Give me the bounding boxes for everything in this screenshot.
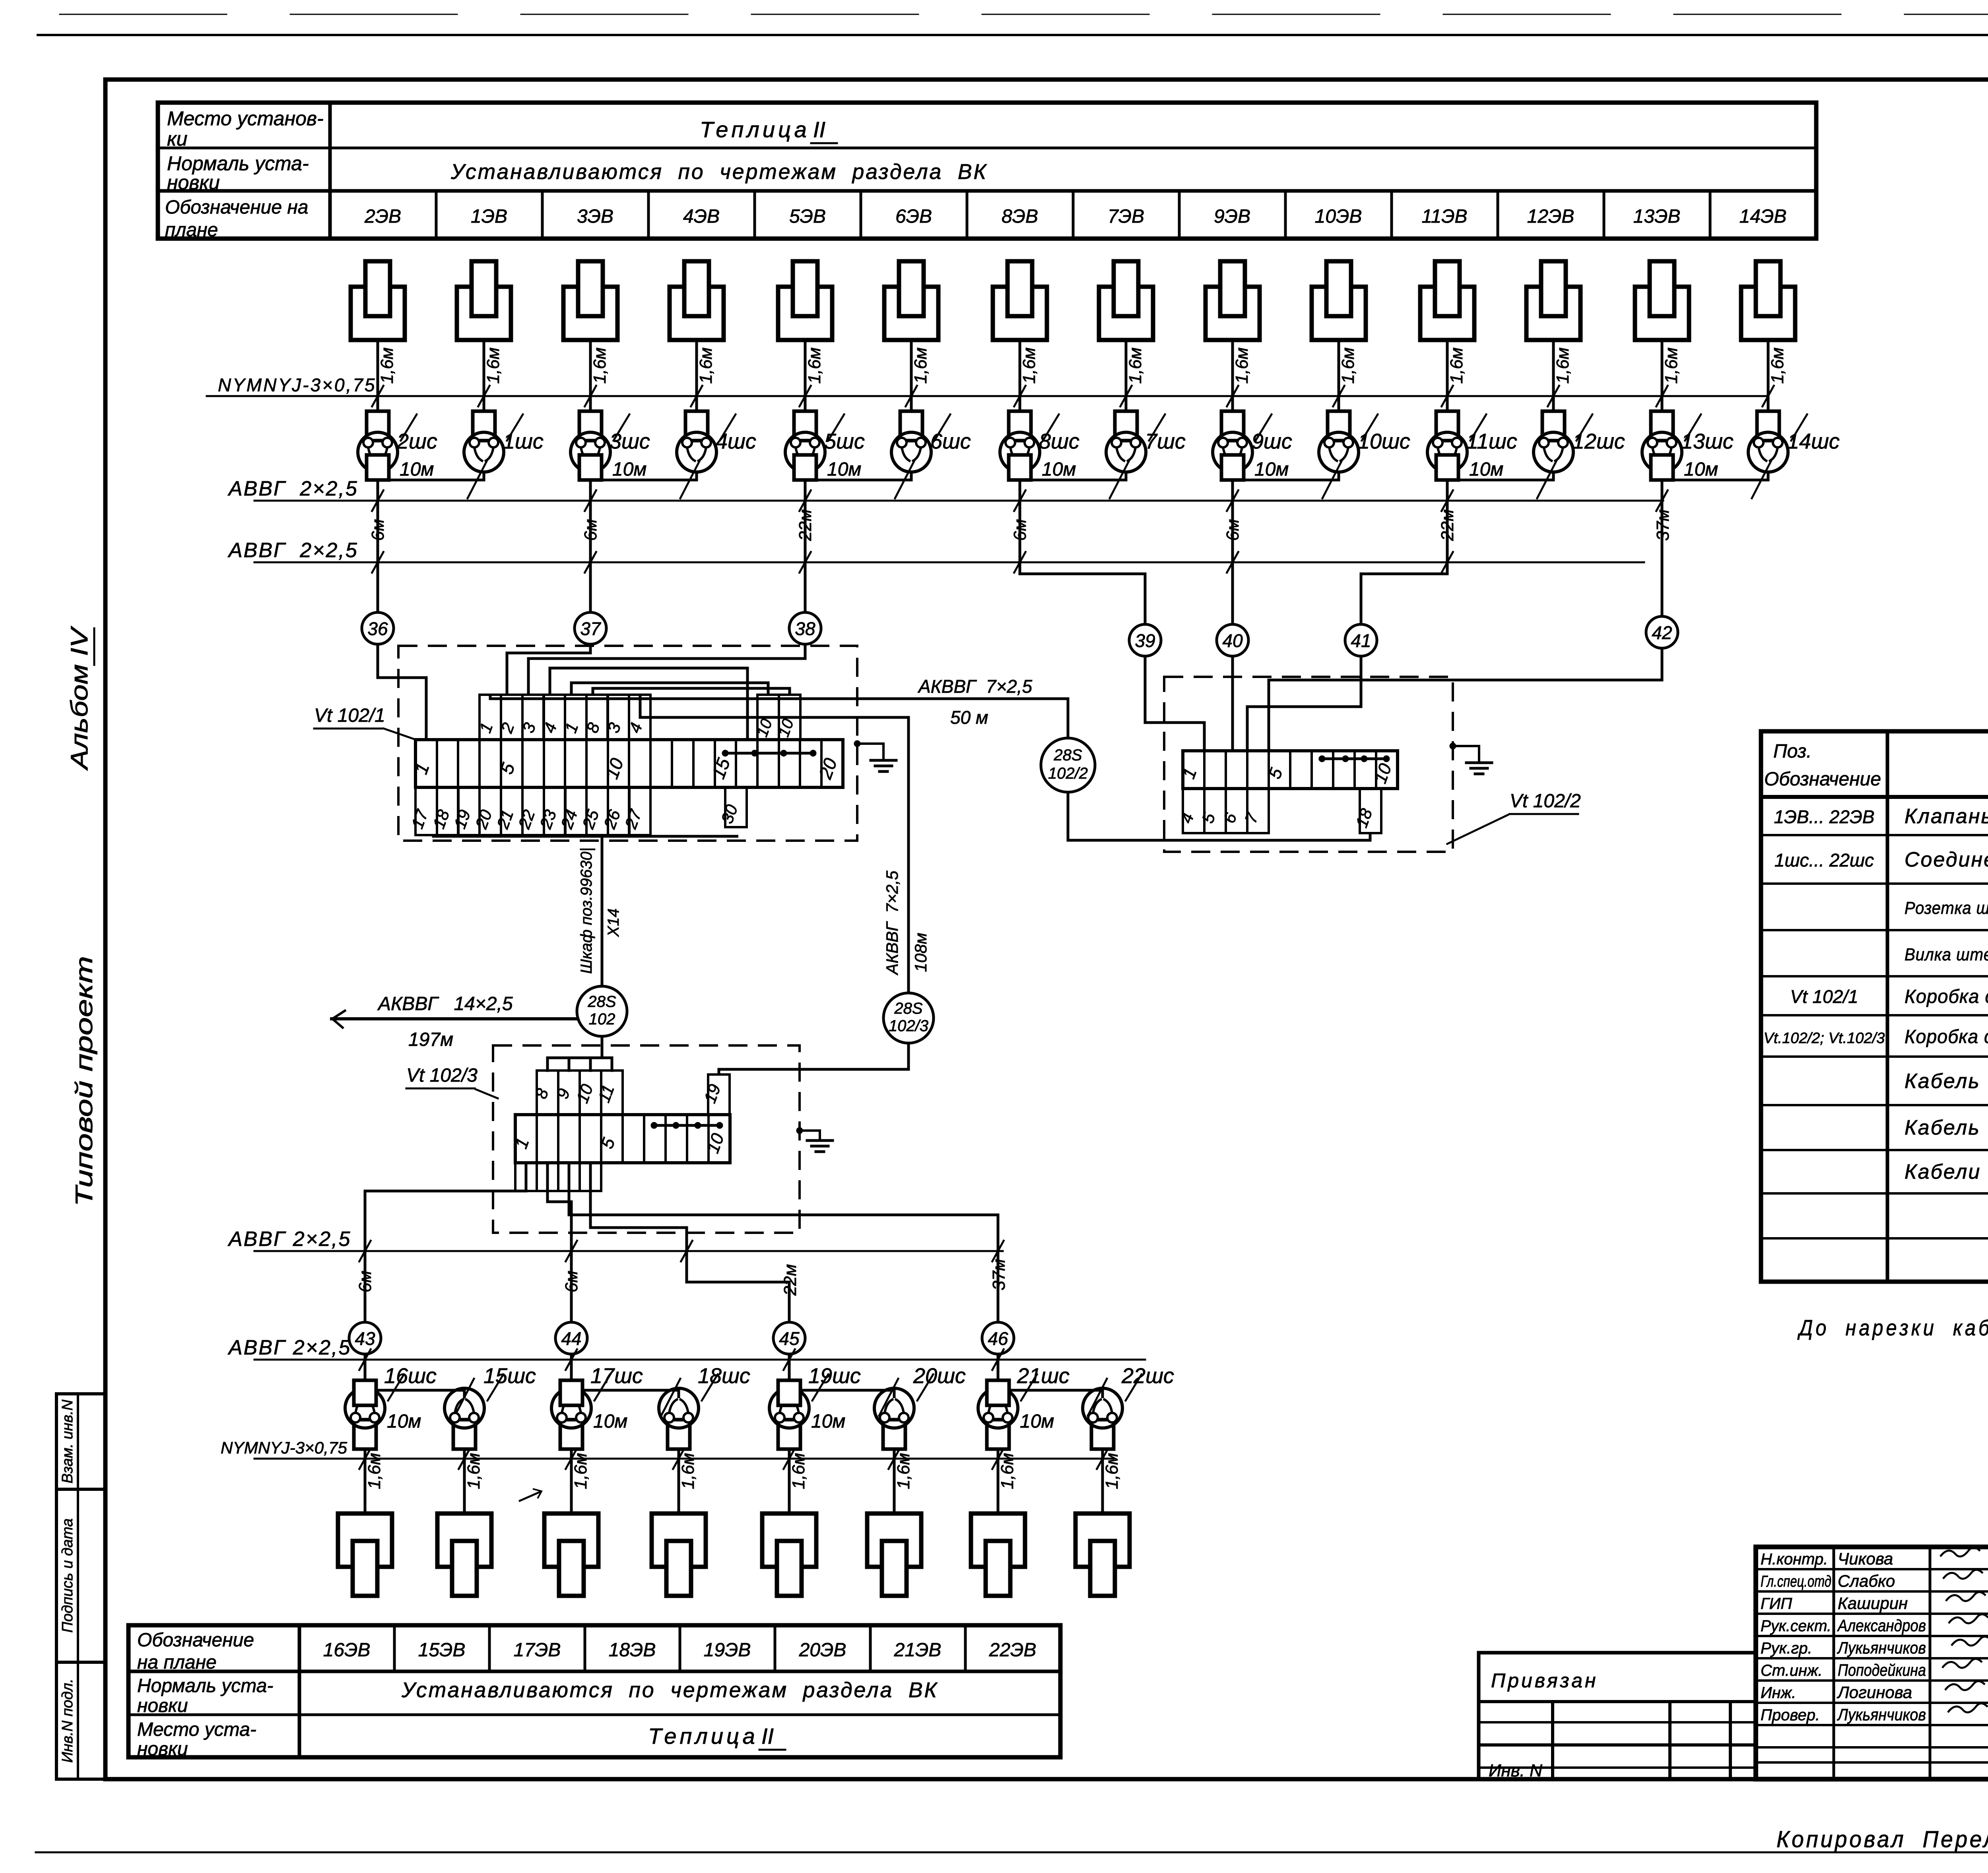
svg-text:Vt 102/3: Vt 102/3: [406, 1065, 478, 1086]
svg-text:36: 36: [367, 618, 388, 639]
cable circle 42: [1646, 616, 1678, 648]
svg-text:1,6м: 1,6м: [1447, 348, 1466, 384]
wire nest c Vt102/1: [593, 688, 790, 695]
svg-text:Теплица: Теплица: [700, 117, 810, 142]
leader slash 2шс: [401, 414, 417, 441]
top table column divider: [860, 191, 862, 239]
bus NYMNYJ bottom: [254, 1458, 1113, 1460]
svg-text:17ЭВ: 17ЭВ: [514, 1640, 561, 1661]
svg-text:21шс: 21шс: [1017, 1364, 1070, 1388]
plug-socket connector 4шс: [677, 411, 716, 472]
component table frame: [1761, 731, 1988, 1282]
wire 1.6m from valve 10ЭВ: [1338, 340, 1340, 412]
electromagnetic valve 22ЭВ: [1076, 1514, 1130, 1596]
bottom table column divider: [964, 1625, 967, 1671]
plug-socket connector 16шс: [345, 1380, 385, 1449]
cable circle 40: [1217, 624, 1248, 656]
svg-text:Устанавливаются по чертежам: Устанавливаются по чертежам раздела ВК: [450, 160, 988, 184]
wire from 28S102/2 to Vt102/2 terminal 18: [1068, 792, 1370, 840]
svg-text:1ЭВ: 1ЭВ: [471, 206, 507, 227]
electromagnetic valve 17ЭВ: [544, 1514, 598, 1596]
svg-text:102/2: 102/2: [1048, 765, 1088, 782]
svg-text:6шс: 6шс: [930, 429, 971, 453]
svg-text:II: II: [813, 117, 825, 142]
plug-socket connector 3шс: [571, 411, 610, 480]
bus AVVG 2x2.5 bottom first: [254, 1250, 1003, 1252]
wire 36 into Vt102/1: [378, 644, 426, 740]
break slash 10m bottom: [661, 1379, 680, 1416]
electromagnetic valve 8ЭВ: [993, 261, 1047, 340]
svg-text:Vt 102/2: Vt 102/2: [1510, 791, 1581, 812]
svg-text:Поподейкина: Поподейкина: [1838, 1661, 1926, 1679]
svg-text:10м: 10м: [811, 1411, 845, 1432]
attachment stamp box: [1479, 1653, 1756, 1779]
wire 1.6m to valve 16ЭВ: [364, 1449, 367, 1514]
wire 1.6m from valve 5ЭВ: [804, 340, 807, 412]
wire circle to connector 21шс: [997, 1354, 1000, 1380]
electromagnetic valve 19ЭВ: [762, 1514, 816, 1596]
plug-socket connector 12шс: [1534, 411, 1573, 472]
svg-text:1,6м: 1,6м: [464, 1453, 483, 1489]
leader slash 13шс: [1685, 414, 1701, 441]
top table column divider: [1284, 191, 1287, 239]
svg-text:Рук.сект.: Рук.сект.: [1761, 1617, 1831, 1635]
svg-text:Кабель АВВГ 2×2,5 ГОСТ 1644: Кабель АВВГ 2×2,5 ГОСТ 16442-80: [1905, 1116, 1988, 1139]
svg-text:АКВВГ 7×2,5: АКВВГ 7×2,5: [883, 870, 901, 976]
cable circle 44: [555, 1322, 587, 1354]
svg-text:на плане: на плане: [137, 1652, 217, 1673]
svg-text:ки: ки: [167, 128, 187, 150]
wire circle to connector 19шс: [788, 1354, 791, 1380]
wire 41 into Vt102/2: [1247, 656, 1361, 751]
top table column divider: [1390, 191, 1393, 239]
svg-text:Вилка штепсельная с уплотненны: Вилка штепсельная с уплотненным вводом У…: [1905, 945, 1988, 964]
leader slash 12шс: [1576, 414, 1592, 441]
circle 28S 102: [577, 986, 627, 1036]
wire 1.6m to valve 18ЭВ: [678, 1449, 680, 1514]
electromagnetic valve 10ЭВ: [1312, 261, 1366, 340]
wire 1.6m from valve 12ЭВ: [1552, 340, 1555, 412]
svg-text:плане: плане: [165, 220, 218, 241]
plug-socket connector 18шс: [659, 1388, 699, 1449]
bottom table column divider: [584, 1625, 586, 1671]
title block signature grid: [1756, 1568, 1988, 1570]
svg-text:19ЭВ: 19ЭВ: [704, 1640, 751, 1661]
leader slash 5шс: [828, 414, 844, 441]
electromagnetic valve 7ЭВ: [1099, 261, 1153, 340]
bottom table frame: [128, 1625, 1060, 1757]
svg-text:Типовой проект: Типовой проект: [71, 956, 97, 1207]
top table column divider: [1178, 191, 1181, 239]
cable wire 43: [525, 1190, 528, 1193]
plug-socket connector 22шс: [1083, 1388, 1122, 1449]
svg-text:АВВГ 2×2,5: АВВГ 2×2,5: [227, 477, 358, 500]
svg-text:17шс: 17шс: [590, 1364, 643, 1388]
cable wire 40 drop: [1231, 480, 1234, 624]
electromagnetic valve 12ЭВ: [1526, 261, 1580, 340]
wire 1.6m from valve 6ЭВ: [910, 340, 913, 412]
wire 10m between 11шс and 12шс: [1447, 472, 1553, 480]
wire 1.6m from valve 11ЭВ: [1446, 340, 1449, 412]
top table column divider: [541, 191, 544, 239]
top stub terminals Vt 102/3: [537, 1071, 558, 1115]
svg-text:новки: новки: [167, 171, 220, 194]
svg-text:Альбом IV: Альбом IV: [66, 626, 93, 771]
top stub terminal 19 Vt 102/3: [708, 1074, 730, 1115]
svg-text:11ЭВ: 11ЭВ: [1421, 206, 1467, 227]
svg-text:Место уста-: Место уста-: [137, 1719, 256, 1740]
wire 10m between 9шс and 10шс: [1233, 472, 1339, 480]
svg-text:43: 43: [355, 1328, 375, 1349]
cable wire 36 drop: [377, 480, 379, 612]
svg-text:6м: 6м: [562, 1271, 581, 1292]
svg-text:22м: 22м: [796, 509, 815, 541]
jumper bar terminals 15-19 Vt102/1: [725, 752, 813, 755]
svg-text:Н.контр.: Н.контр.: [1761, 1550, 1828, 1568]
cable circle 39: [1129, 624, 1161, 656]
svg-text:102: 102: [589, 1010, 615, 1028]
svg-text:1,6м: 1,6м: [1232, 348, 1252, 384]
plug-socket connector 20шс: [874, 1388, 914, 1449]
cable wire 45 stepped: [590, 1163, 789, 1322]
cable circle 46: [982, 1322, 1014, 1354]
break slash 10m: [1752, 461, 1771, 498]
svg-text:Коробка соединительная КС-20 Т: Коробка соединительная КС-20 ТУ36. 1764-…: [1905, 986, 1988, 1007]
svg-text:Шкаф поз.99630|: Шкаф поз.99630|: [578, 847, 595, 974]
svg-text:10м: 10м: [387, 1411, 421, 1432]
svg-text:Логинова: Логинова: [1837, 1683, 1912, 1702]
svg-text:6м: 6м: [1010, 519, 1030, 541]
svg-text:1,6м: 1,6м: [789, 1453, 808, 1489]
svg-text:10м: 10м: [1042, 459, 1076, 480]
svg-text:18ЭВ: 18ЭВ: [609, 1640, 656, 1661]
svg-text:8шс: 8шс: [1039, 429, 1079, 453]
svg-text:АКВВГ 14×2,5: АКВВГ 14×2,5: [377, 993, 513, 1014]
cable wire 41 drop: [1361, 480, 1447, 624]
svg-text:Соединение штепсельное ГОСТ: Соединение штепсельное ГОСТ 739Б-76: [1905, 848, 1988, 871]
bus AVVG 2x2.5 bottom second: [254, 1359, 1145, 1361]
terminal strip Vt 102/1: [415, 740, 843, 787]
plug-socket connector 9шс: [1213, 411, 1252, 480]
svg-text:Взам. инв.N: Взам. инв.N: [59, 1399, 76, 1483]
wire 10m between 5шс and 6шс: [805, 472, 911, 480]
cable wire 37 drop: [589, 480, 592, 612]
wire 1.6m from valve 2ЭВ: [377, 340, 379, 412]
ground Vt 102/1: [854, 740, 860, 747]
wire 10m between 3шс and 4шс: [590, 472, 697, 480]
leader slash 19шс: [812, 1374, 828, 1401]
svg-text:Привязан: Привязан: [1491, 1669, 1598, 1692]
ground Vt 102/2: [1450, 743, 1456, 749]
junction box Vt 102/2 dashed outline: [1164, 677, 1453, 852]
leader Vt 102/2: [1447, 815, 1508, 844]
leader slash 21шс: [1021, 1374, 1037, 1401]
svg-text:9ЭВ: 9ЭВ: [1214, 206, 1250, 227]
wire 1.6m from valve 9ЭВ: [1231, 340, 1234, 412]
bottom table column divider: [869, 1625, 872, 1671]
plug-socket connector 6шс: [891, 411, 931, 472]
svg-text:45: 45: [779, 1328, 800, 1349]
svg-text:15шс: 15шс: [483, 1364, 536, 1388]
cable wire 46 long: [569, 1163, 998, 1322]
svg-text:1,6м: 1,6м: [805, 348, 824, 384]
svg-text:7ЭВ: 7ЭВ: [1108, 206, 1144, 227]
svg-text:22шс: 22шс: [1121, 1364, 1174, 1388]
svg-text:10м: 10м: [400, 459, 434, 480]
svg-text:Копировал Перелыгина: Копировал Перелыгина: [1776, 1826, 1988, 1852]
wire 42 into Vt102/2: [1269, 648, 1662, 751]
svg-text:4шс: 4шс: [716, 429, 756, 453]
small arrow mark: [519, 1491, 542, 1501]
svg-text:До нарезки кабеля длины тр: До нарезки кабеля длины трасс уточнить п…: [1797, 1315, 1988, 1340]
leader slash 6шс: [934, 414, 950, 441]
svg-text:АКВВГ 7×2,5: АКВВГ 7×2,5: [917, 676, 1033, 697]
bottom stub terminals Vt 102/1: [415, 787, 437, 835]
wire 1.6m from valve 3ЭВ: [589, 340, 592, 412]
electromagnetic valve 9ЭВ: [1206, 261, 1260, 340]
svg-text:1шс: 1шс: [503, 429, 544, 453]
svg-text:1,6м: 1,6м: [1768, 348, 1787, 384]
bottom stub terminals Vt 102/3: [515, 1163, 537, 1191]
svg-text:5шс: 5шс: [824, 429, 865, 453]
leader slash 17шс: [594, 1374, 610, 1401]
svg-text:АВВГ 2×2,5: АВВГ 2×2,5: [227, 1336, 351, 1359]
svg-text:10м: 10м: [1684, 459, 1718, 480]
svg-text:Место установ-: Место установ-: [167, 107, 324, 130]
svg-text:ГИП: ГИП: [1761, 1595, 1792, 1613]
svg-text:Кабели АКВВГ ГОСТ 1508-78: Кабели АКВВГ ГОСТ 1508-78: [1905, 1160, 1988, 1183]
wire Shkaf poz.99630 X14: [433, 835, 738, 836]
wire circle to connector 17шс: [570, 1354, 573, 1380]
electromagnetic valve 3ЭВ: [563, 261, 617, 340]
wire 40 into Vt102/2: [1231, 656, 1234, 751]
svg-text:Теплица: Теплица: [648, 1723, 758, 1749]
svg-text:Ст.инж.: Ст.инж.: [1761, 1662, 1823, 1679]
svg-text:6ЭВ: 6ЭВ: [895, 206, 932, 227]
wire 1.6m to valve 19ЭВ: [788, 1449, 791, 1514]
svg-text:NYMNYJ-3×0,75: NYMNYJ-3×0,75: [221, 1438, 348, 1457]
sheet edge top torn line: [60, 14, 1988, 15]
circle 28S 102/2: [1041, 738, 1095, 792]
svg-text:1,6м: 1,6м: [1019, 348, 1039, 384]
electromagnetic valve 16ЭВ: [338, 1514, 392, 1596]
svg-text:22м: 22м: [1438, 509, 1457, 541]
wire 10m between 19шс and 20шс: [789, 1390, 894, 1398]
bottom stub terminals Vt 102/2: [1183, 789, 1204, 833]
svg-text:28S: 28S: [1053, 746, 1082, 764]
break slash 10m bottom: [455, 1379, 474, 1416]
wire 1.6m from valve 1ЭВ: [483, 340, 485, 412]
leader slash 15шс: [487, 1374, 503, 1401]
cable wire 38 drop: [804, 480, 807, 612]
electromagnetic valve 11ЭВ: [1420, 261, 1474, 340]
wire 1.6m from valve 7ЭВ: [1125, 340, 1128, 412]
wire 28S102 to Vt102/3 stubs: [601, 1036, 604, 1058]
wire 10m between 21шс and 22шс: [998, 1390, 1103, 1398]
electromagnetic valve 18ЭВ: [652, 1514, 706, 1596]
cable wire 44: [547, 1163, 571, 1322]
wire 10m between 17шс and 18шс: [571, 1390, 679, 1398]
junction box Vt 102/1 dashed outline: [398, 646, 857, 841]
svg-text:10м: 10м: [593, 1411, 627, 1432]
plug-socket connector 1шс: [464, 411, 504, 472]
plug-socket connector 21шс: [978, 1380, 1018, 1449]
svg-text:12ЭВ: 12ЭВ: [1527, 206, 1574, 227]
break slash 10m: [1537, 461, 1556, 498]
svg-text:6м: 6м: [581, 519, 600, 541]
wire circle to connector 16шс: [364, 1354, 367, 1380]
svg-text:46: 46: [988, 1328, 1008, 1349]
svg-text:50 м: 50 м: [950, 707, 988, 728]
leader slash 7шс: [1149, 414, 1165, 441]
wire 38 into Vt102/1: [528, 644, 805, 695]
jumper bar Vt102/2: [1320, 758, 1388, 760]
wire 1.6m from valve 14ЭВ: [1767, 340, 1770, 412]
electromagnetic valve 20ЭВ: [867, 1514, 921, 1596]
svg-text:44: 44: [561, 1328, 581, 1349]
svg-text:Лукьянчиков: Лукьянчиков: [1837, 1638, 1926, 1657]
leader slash 14шс: [1791, 414, 1807, 441]
svg-text:37м: 37м: [1653, 509, 1673, 541]
plug-socket connector 19шс: [769, 1380, 809, 1449]
svg-text:Коробка соединительная КС-10: Коробка соединительная КС-10 ТУ36.17.64-…: [1905, 1026, 1988, 1047]
bottom table column divider: [774, 1625, 777, 1671]
cable circle 41: [1345, 624, 1377, 656]
svg-text:6м: 6м: [1223, 519, 1242, 541]
svg-text:4ЭВ: 4ЭВ: [683, 206, 720, 227]
cable AKVVG 7x2.5 50m wire: [490, 695, 1068, 699]
svg-text:1,6м: 1,6м: [483, 348, 503, 384]
bus AVVG 2x2.5 top first: [254, 500, 1663, 502]
break slash 10m: [895, 461, 914, 498]
svg-text:Обозначение на: Обозначение на: [165, 197, 309, 218]
bottom table column divider: [679, 1625, 681, 1671]
leader slash 10шс: [1362, 414, 1378, 441]
svg-text:Клапаны электромагнитные: Клапаны электромагнитные: [1905, 805, 1988, 828]
svg-text:8ЭВ: 8ЭВ: [1002, 206, 1038, 227]
wire 1.6m from valve 8ЭВ: [1019, 340, 1021, 412]
svg-text:Инв.N подл.: Инв.N подл.: [59, 1679, 76, 1763]
wire 1.6m to valve 17ЭВ: [570, 1449, 573, 1514]
leader slash 18шс: [702, 1374, 718, 1401]
top stub terminals Vt 102/1: [480, 695, 501, 740]
cable AKVVG 7x2.5 108m wire: [640, 695, 909, 993]
svg-text:13ЭВ: 13ЭВ: [1633, 206, 1681, 227]
wire 1.6m from valve 4ЭВ: [695, 340, 698, 412]
svg-text:28S: 28S: [587, 993, 616, 1010]
leader slash 11шс: [1470, 414, 1486, 441]
leader slash 16шс: [388, 1374, 404, 1401]
junction box Vt 102/3 dashed outline: [493, 1045, 800, 1233]
bottom stub terminal 18 Vt 102/2: [1360, 789, 1381, 833]
svg-text:41: 41: [1351, 630, 1371, 651]
wire 39 into Vt102/2: [1145, 656, 1204, 751]
leader slash 4шс: [720, 414, 736, 441]
svg-text:АВВГ 2×2,5: АВВГ 2×2,5: [227, 1228, 351, 1251]
wire 10m between 16шс and 15шс: [365, 1390, 464, 1398]
leader slash 20шс: [917, 1374, 933, 1401]
svg-text:1,6м: 1,6м: [911, 348, 930, 384]
svg-text:2ЭВ: 2ЭВ: [364, 206, 401, 227]
plug-socket connector 13шс: [1642, 411, 1682, 480]
svg-text:Инв. N: Инв. N: [1489, 1761, 1542, 1780]
svg-text:новки: новки: [137, 1739, 188, 1760]
break slash 10m: [1322, 461, 1342, 498]
ground Vt 102/3: [796, 1127, 803, 1134]
top table frame: [158, 103, 1816, 239]
svg-text:Нормаль уста-: Нормаль уста-: [137, 1675, 273, 1696]
svg-text:Слабко: Слабко: [1838, 1572, 1895, 1590]
electromagnetic valve 4ЭВ: [670, 261, 724, 340]
svg-text:1шс... 22шс: 1шс... 22шс: [1774, 850, 1874, 870]
svg-text:10м: 10м: [1254, 459, 1289, 480]
wire 1.6m to valve 15ЭВ: [463, 1449, 466, 1514]
svg-text:6м: 6м: [355, 1271, 375, 1292]
wire 1.6m to valve 20ЭВ: [893, 1449, 896, 1514]
top table column divider: [1709, 191, 1712, 239]
top table column divider: [647, 191, 650, 239]
cable wire 42 drop: [1661, 480, 1664, 616]
electromagnetic valve 2ЭВ: [351, 261, 405, 340]
leader slash 8шс: [1043, 414, 1059, 441]
circle 28S 102/3: [883, 993, 934, 1043]
svg-text:5ЭВ: 5ЭВ: [789, 206, 826, 227]
wire 10m between 13шс and 14шс: [1662, 472, 1768, 480]
svg-text:19шс: 19шс: [808, 1364, 861, 1388]
svg-text:37: 37: [580, 618, 601, 639]
svg-text:9шс: 9шс: [1252, 429, 1292, 453]
svg-text:40: 40: [1222, 630, 1243, 651]
terminal strip Vt 102/3: [515, 1115, 730, 1163]
svg-text:новки: новки: [137, 1695, 188, 1716]
sheet edge top line: [38, 34, 1988, 36]
svg-text:Александров: Александров: [1837, 1616, 1926, 1635]
svg-text:15ЭВ: 15ЭВ: [418, 1640, 466, 1661]
svg-text:42: 42: [1652, 622, 1672, 643]
wire nest a Vt102/1: [550, 668, 747, 740]
svg-text:1,6м: 1,6м: [998, 1453, 1017, 1489]
svg-text:10ЭВ: 10ЭВ: [1315, 206, 1362, 227]
svg-text:1,6м: 1,6м: [696, 348, 716, 384]
leader slash 3шс: [613, 414, 629, 441]
svg-text:10м: 10м: [827, 459, 861, 480]
svg-text:28S: 28S: [894, 1000, 922, 1017]
svg-text:Чикова: Чикова: [1838, 1549, 1893, 1568]
plug-socket connector 5шс: [785, 411, 825, 480]
svg-text:6м: 6м: [368, 519, 388, 541]
wire 1.6m to valve 22ЭВ: [1101, 1449, 1104, 1514]
svg-text:1,6м: 1,6м: [894, 1453, 913, 1489]
svg-text:NYMNYJ-3×0,75: NYMNYJ-3×0,75: [218, 375, 376, 395]
wire to circle 28S 102/2: [1067, 699, 1070, 738]
cable circle 43: [349, 1322, 381, 1354]
top table column divider: [1603, 191, 1606, 239]
svg-text:1,6м: 1,6м: [377, 348, 397, 384]
plug-socket connector 17шс: [551, 1380, 591, 1449]
svg-text:1,6м: 1,6м: [365, 1453, 384, 1489]
svg-text:II: II: [761, 1723, 774, 1749]
svg-text:Рук.гр.: Рук.гр.: [1761, 1640, 1812, 1657]
svg-text:1ЭВ... 22ЭВ: 1ЭВ... 22ЭВ: [1774, 806, 1874, 827]
svg-text:16шс: 16шс: [384, 1364, 437, 1388]
svg-text:Vt 102/1: Vt 102/1: [314, 705, 385, 726]
svg-text:Розетка штепсельная брызгонепр: Розетка штепсельная брызгонепроницаемая …: [1905, 898, 1988, 918]
svg-text:АВВГ 2×2,5: АВВГ 2×2,5: [227, 539, 358, 562]
top table column divider: [966, 191, 969, 239]
svg-text:Vt.102/2; Vt.102/3: Vt.102/2; Vt.102/3: [1764, 1030, 1885, 1047]
cable circle 36: [362, 612, 394, 644]
break slash 10m: [468, 461, 487, 498]
